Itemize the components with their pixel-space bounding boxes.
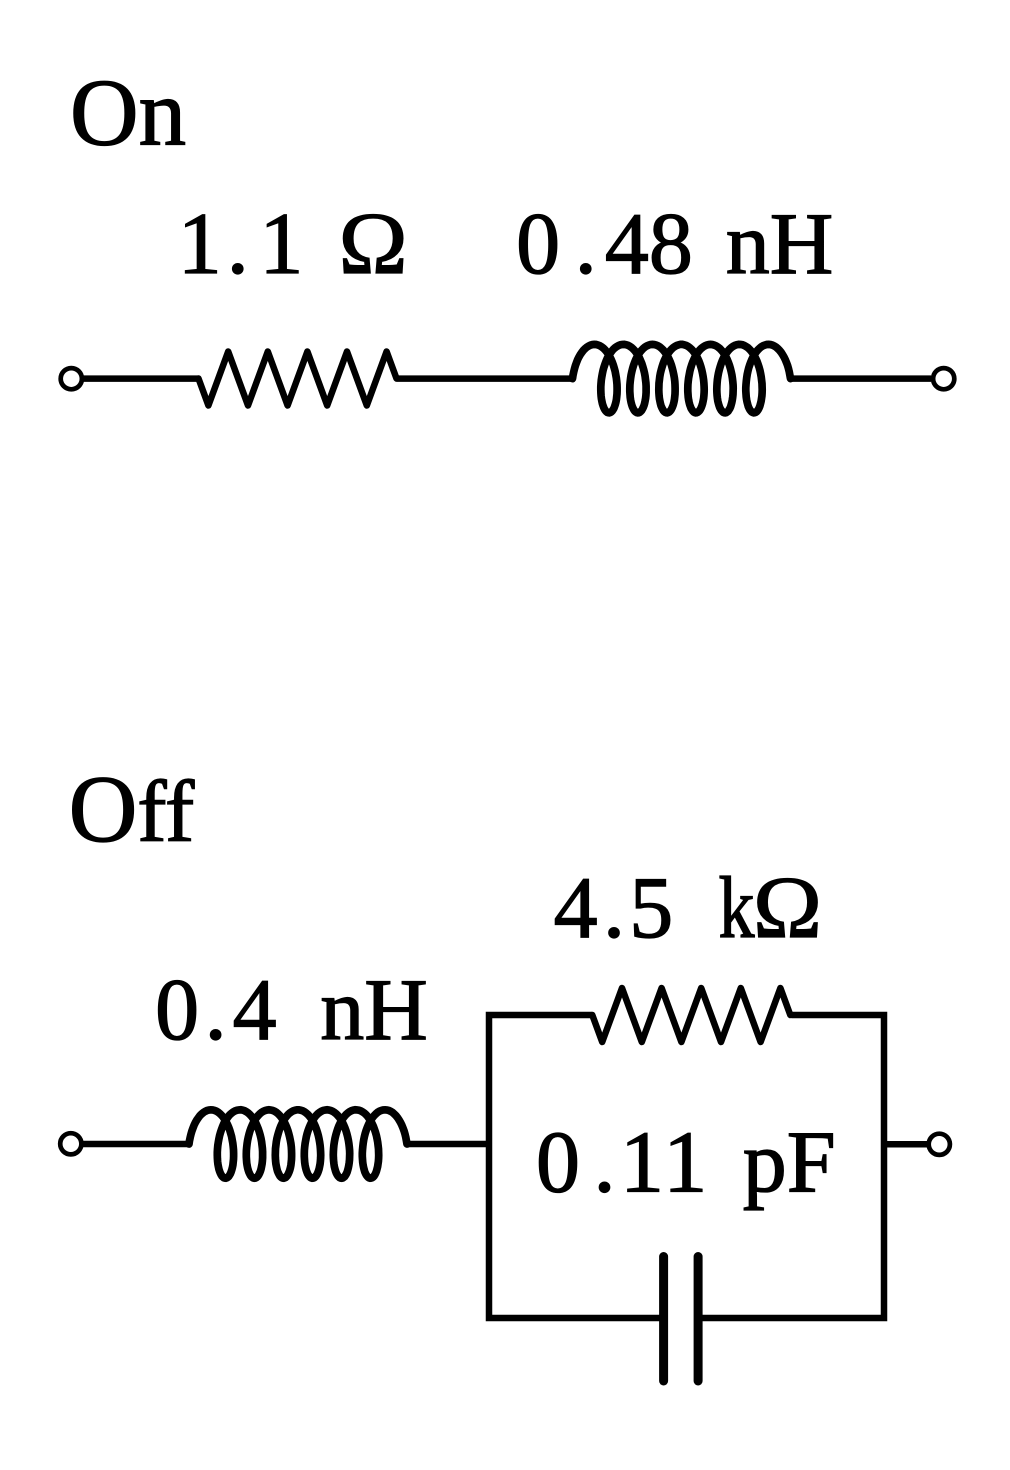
svg-text:Ω: Ω (753, 860, 822, 957)
svg-text:nH: nH (726, 196, 834, 293)
terminal port P3 (off, left) (60, 1133, 81, 1154)
label 0.48 nH (value of L1) (516, 196, 833, 293)
resistor R2 4.5 kohm (592, 988, 790, 1042)
svg-text:5: 5 (629, 860, 673, 957)
node: parallel RC box right branch (700, 1015, 884, 1318)
svg-text:1: 1 (663, 1115, 707, 1212)
svg-text:.: . (575, 196, 597, 293)
svg-text:k: k (719, 860, 755, 957)
resistor R1 1.1 ohm (199, 352, 397, 406)
svg-text:1: 1 (620, 1115, 664, 1212)
svg-text:0: 0 (155, 962, 199, 1059)
svg-text:0: 0 (516, 196, 560, 293)
svg-text:1: 1 (259, 196, 303, 293)
label 0.4 nH (value of L2) (155, 962, 428, 1059)
wire (884, 1141, 927, 1148)
wire (407, 1141, 489, 1148)
capacitor C1 left plate (659, 1257, 668, 1382)
svg-text:Off: Off (69, 756, 195, 862)
svg-text:.: . (594, 1115, 616, 1212)
wire (82, 1141, 190, 1148)
wire (82, 375, 199, 382)
svg-text:Ω: Ω (339, 196, 408, 293)
terminal port P2 (on, right) (933, 368, 954, 389)
label 0.11 pF (value of C1) (536, 1115, 836, 1212)
terminal port P1 (on, left) (61, 368, 82, 389)
node: parallel RC box left branch (489, 1015, 662, 1318)
inductor L2 0.4 nH (189, 1110, 407, 1178)
wire (397, 375, 573, 382)
svg-text:nH: nH (320, 962, 428, 1059)
svg-text:4: 4 (554, 860, 598, 957)
wire (791, 375, 931, 382)
label 4.5 kohm (value of R2) (554, 860, 822, 957)
svg-text:pF: pF (743, 1115, 836, 1212)
svg-text:48: 48 (605, 196, 693, 293)
inductor L1 0.48 nH (573, 344, 791, 412)
capacitor C1 right plate (694, 1257, 703, 1382)
svg-text:.: . (603, 860, 625, 957)
svg-text:0: 0 (536, 1115, 580, 1212)
svg-text:On: On (70, 60, 186, 166)
svg-text:4: 4 (233, 962, 277, 1059)
svg-text:1: 1 (178, 196, 222, 293)
svg-text:.: . (227, 196, 249, 293)
terminal port P4 (off, right) (929, 1134, 950, 1155)
svg-text:.: . (205, 962, 227, 1059)
label 1.1 ohm (value of R1) (178, 196, 408, 293)
